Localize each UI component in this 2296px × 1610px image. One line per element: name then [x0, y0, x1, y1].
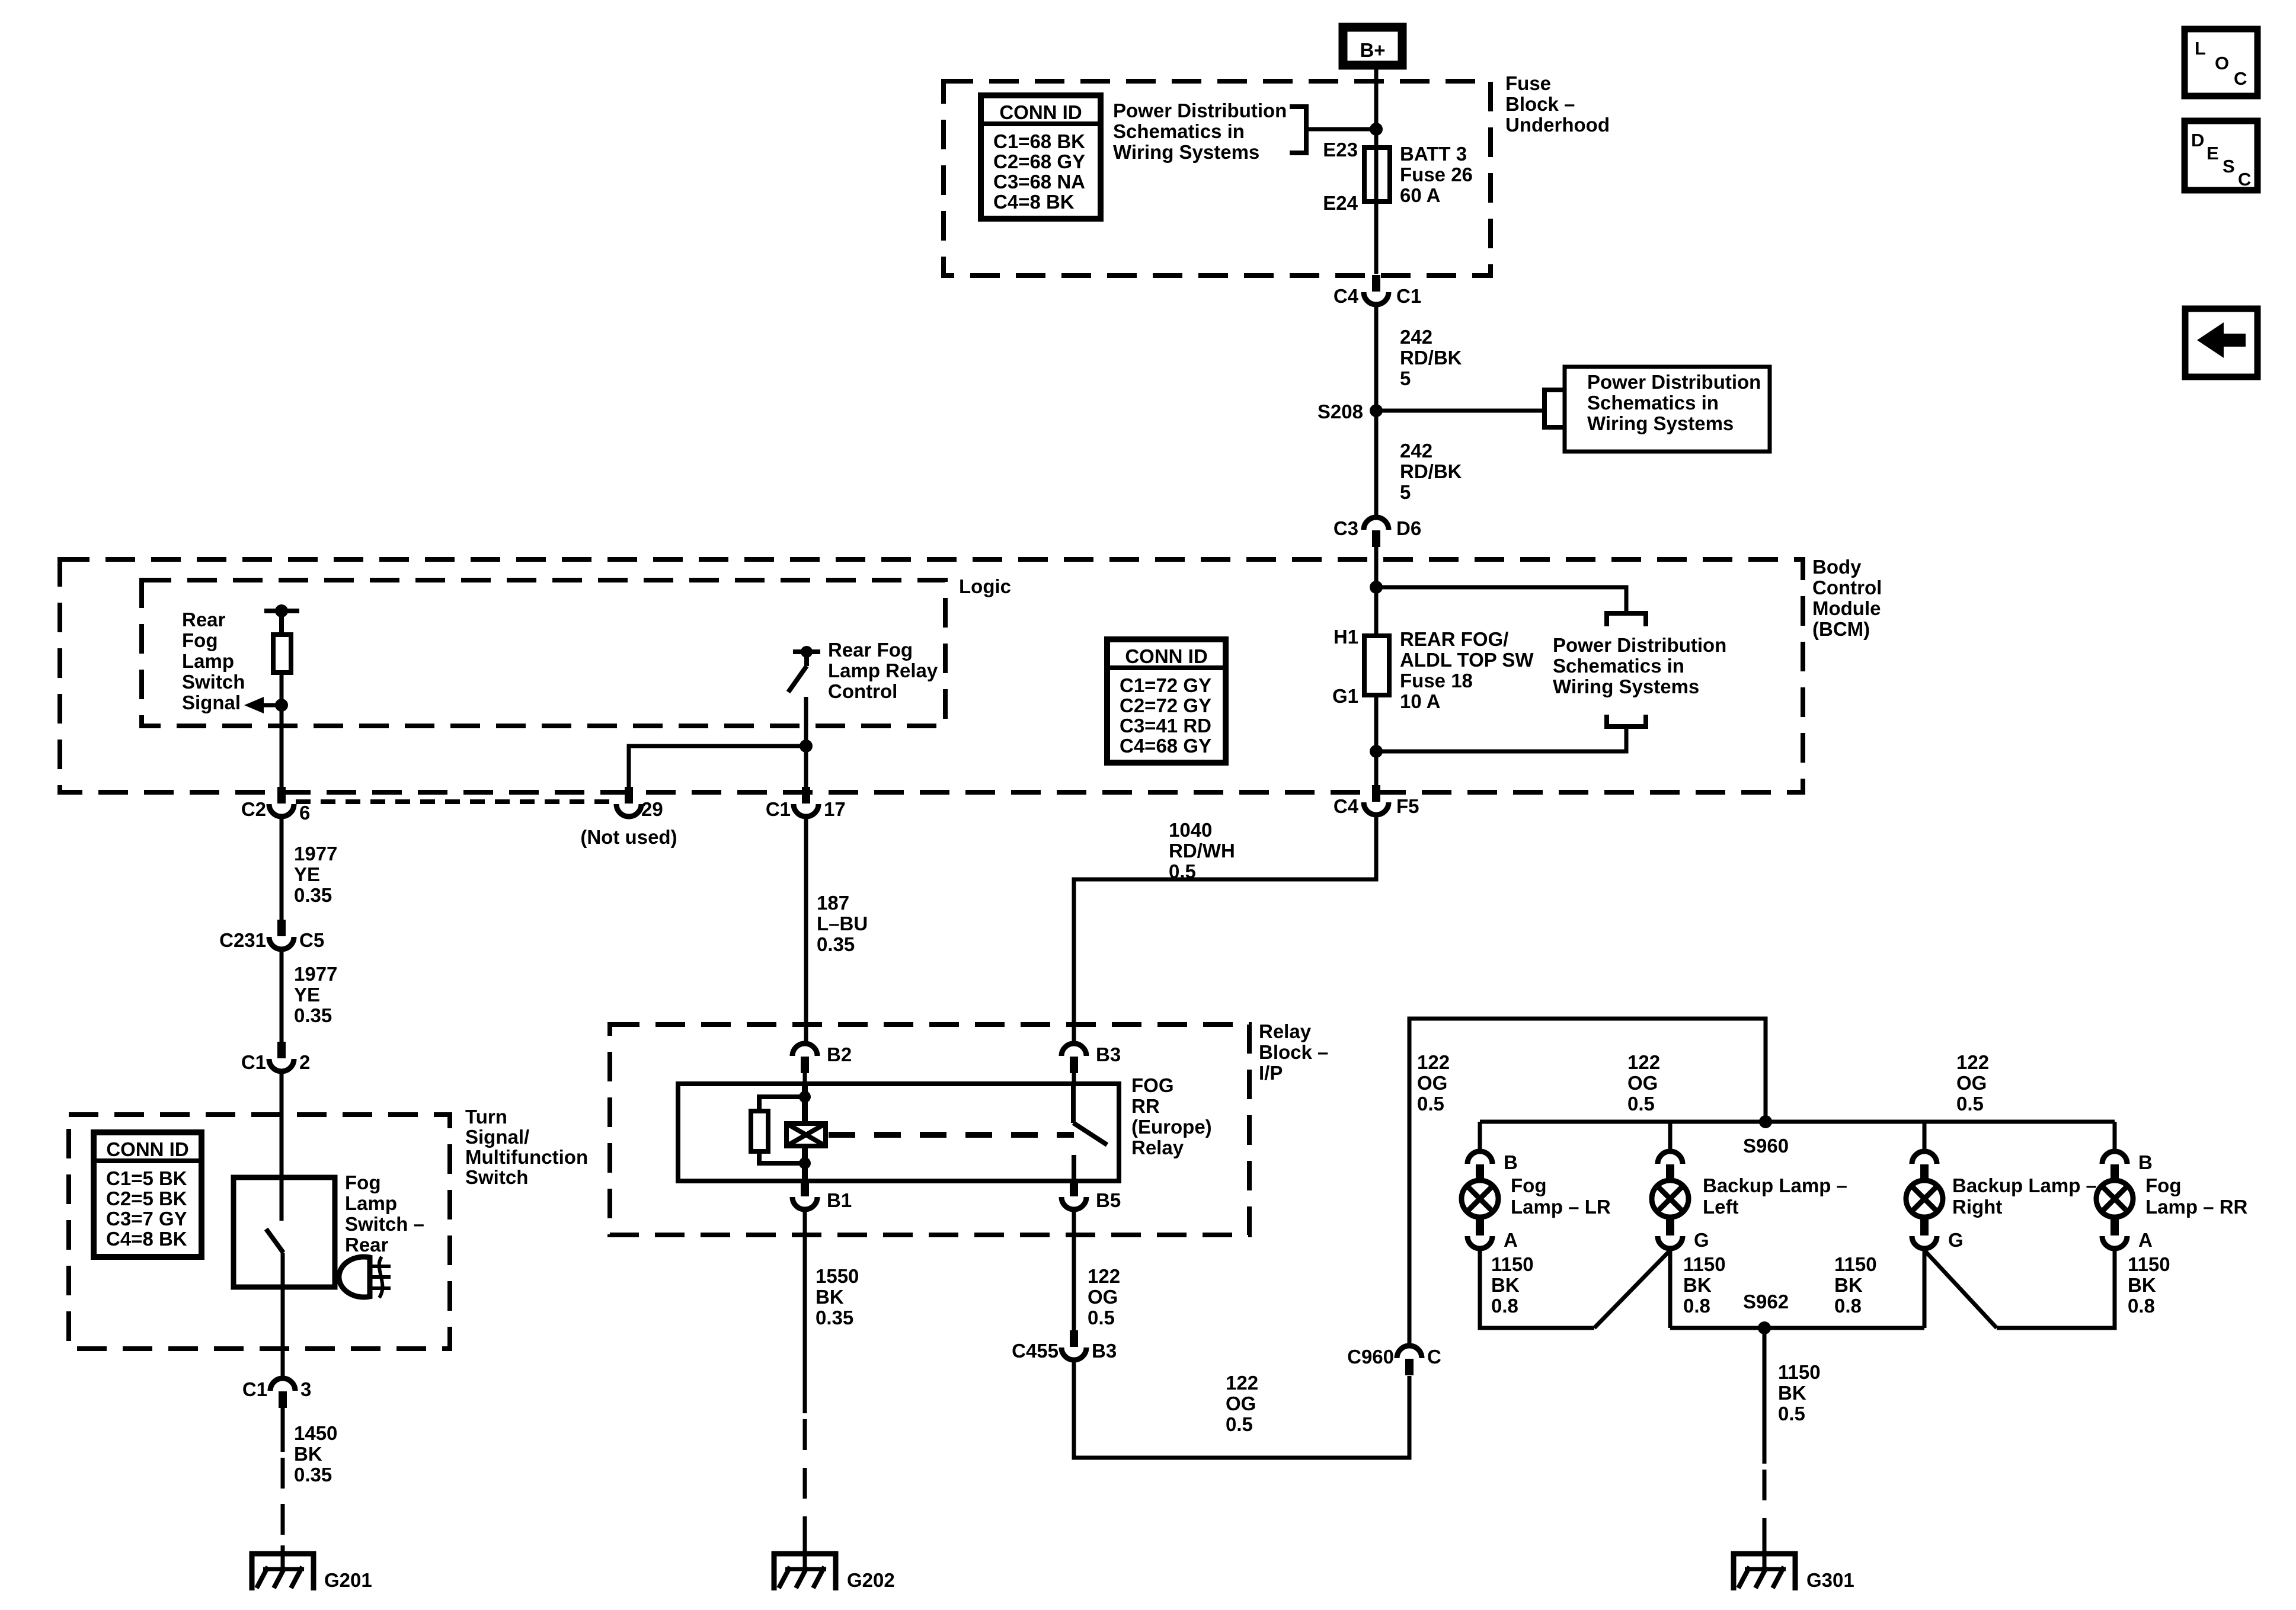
svg-text:G301: G301 — [1806, 1569, 1854, 1591]
svg-text:REAR FOG/: REAR FOG/ — [1400, 628, 1508, 650]
svg-text:(Not used): (Not used) — [580, 826, 677, 848]
wire 122 OG 0.5 (B5 to C455) — [1072, 1211, 1076, 1331]
svg-text:B2: B2 — [827, 1044, 852, 1065]
fuse REAR FOG/ALDL TOP SW Fuse 18 10A — [1364, 636, 1389, 695]
svg-text:10 A: 10 A — [1400, 690, 1440, 712]
svg-text:5: 5 — [1400, 481, 1411, 503]
svg-text:OG: OG — [1627, 1072, 1658, 1094]
svg-text:G201: G201 — [324, 1569, 372, 1591]
svg-text:(BCM): (BCM) — [1812, 618, 1870, 640]
svg-text:Schematics in: Schematics in — [1113, 120, 1245, 142]
splice S960 — [1480, 1120, 2115, 1124]
svg-text:C3=68 NA: C3=68 NA — [993, 171, 1085, 193]
svg-text:C: C — [2238, 169, 2251, 190]
svg-text:Relay: Relay — [1131, 1137, 1184, 1158]
svg-text:122: 122 — [1417, 1051, 1450, 1073]
svg-text:1977: 1977 — [294, 843, 337, 865]
wire 1150 BK 0.8 (backup right) — [1923, 1250, 1927, 1328]
svg-text:Body: Body — [1812, 556, 1862, 578]
connector C960/C — [1405, 1359, 1414, 1375]
svg-text:Fog: Fog — [182, 629, 218, 651]
svg-text:G: G — [1948, 1229, 1964, 1251]
svg-text:(Europe): (Europe) — [1131, 1116, 1212, 1138]
svg-text:Relay: Relay — [1259, 1020, 1312, 1042]
svg-text:Block –: Block – — [1259, 1041, 1328, 1063]
svg-text:Rear: Rear — [182, 609, 226, 630]
svg-text:S962: S962 — [1743, 1291, 1789, 1313]
svg-text:Underhood: Underhood — [1505, 114, 1610, 136]
svg-text:Fog: Fog — [1511, 1174, 1546, 1196]
wire 122 OG 0.5 (C960 up and across) — [1409, 1019, 1766, 1344]
svg-text:0.5: 0.5 — [1778, 1403, 1805, 1425]
svg-text:C1: C1 — [766, 798, 791, 820]
svg-text:C3=7 GY: C3=7 GY — [106, 1208, 187, 1230]
svg-text:C4=68 GY: C4=68 GY — [1120, 735, 1211, 757]
not-used link — [296, 799, 614, 804]
svg-text:60 A: 60 A — [1400, 184, 1440, 206]
connector C455/B3 — [1070, 1330, 1078, 1347]
svg-text:0.5: 0.5 — [1226, 1413, 1253, 1435]
CONN ID table (switch) — [94, 1132, 202, 1257]
svg-text:BK: BK — [1683, 1274, 1712, 1296]
svg-text:0.35: 0.35 — [816, 1307, 853, 1329]
junction to power dist ref (top) — [1370, 581, 1383, 594]
svg-text:1150: 1150 — [1834, 1253, 1877, 1275]
svg-text:Power Distribution: Power Distribution — [1587, 371, 1761, 393]
svg-text:Control: Control — [828, 680, 897, 702]
fog lamp LR — [1478, 1122, 1482, 1150]
svg-text:C5: C5 — [299, 929, 324, 951]
svg-text:A: A — [1504, 1229, 1518, 1251]
svg-text:FOG: FOG — [1131, 1074, 1174, 1096]
svg-text:B+: B+ — [1360, 39, 1385, 61]
fuse BATT 3 Fuse 26 60 A — [1364, 148, 1390, 201]
svg-text:E: E — [2207, 143, 2219, 164]
wire 1150 BK 0.8 (fog RR) — [1997, 1250, 2115, 1328]
svg-text:BK: BK — [2128, 1274, 2156, 1296]
wire 1977 YE 0.35 (2) — [280, 951, 284, 1042]
svg-text:C2=72 GY: C2=72 GY — [1120, 694, 1211, 716]
svg-text:S960: S960 — [1743, 1135, 1789, 1157]
svg-text:Rear Fog: Rear Fog — [828, 639, 913, 661]
connector B2 — [801, 1057, 809, 1073]
connector C4/C1 — [1372, 275, 1380, 292]
svg-text:Power Distribution: Power Distribution — [1113, 100, 1287, 121]
svg-text:CONN ID: CONN ID — [999, 101, 1082, 123]
svg-text:C1=68 BK: C1=68 BK — [993, 130, 1085, 152]
svg-text:Right: Right — [1952, 1196, 2002, 1218]
svg-text:YE: YE — [294, 863, 320, 885]
svg-text:B: B — [2138, 1151, 2153, 1173]
svg-text:E23: E23 — [1323, 139, 1358, 161]
svg-text:Fuse 18: Fuse 18 — [1400, 670, 1473, 692]
svg-text:Rear: Rear — [345, 1234, 389, 1256]
svg-text:0.8: 0.8 — [2128, 1295, 2155, 1317]
svg-text:Backup Lamp –: Backup Lamp – — [1703, 1174, 1847, 1196]
ground G202 — [772, 1551, 838, 1557]
connector 29 (not used) — [625, 787, 633, 804]
svg-text:2: 2 — [299, 1051, 310, 1073]
svg-text:B5: B5 — [1096, 1189, 1121, 1211]
svg-text:Power Distribution: Power Distribution — [1553, 634, 1726, 656]
fog lamp switch - rear box — [234, 1177, 335, 1287]
svg-text:1150: 1150 — [1778, 1361, 1821, 1383]
wire 1150 BK 0.8 (backup left) — [1668, 1250, 1673, 1328]
svg-text:0.35: 0.35 — [817, 933, 855, 955]
connector C1/17 — [802, 787, 810, 804]
svg-text:S: S — [2223, 156, 2235, 177]
svg-text:C2=5 BK: C2=5 BK — [106, 1188, 187, 1209]
svg-text:1040: 1040 — [1169, 819, 1212, 841]
svg-text:Block –: Block – — [1505, 93, 1575, 115]
svg-text:0.35: 0.35 — [294, 1464, 332, 1486]
svg-text:C: C — [2234, 68, 2247, 89]
svg-text:242: 242 — [1400, 440, 1432, 462]
svg-text:L: L — [2195, 38, 2206, 59]
battery feed B+ — [1343, 27, 1402, 65]
connector B5 — [1070, 1180, 1078, 1196]
wire 122 OG 0.5 (C455 to C960) — [1074, 1362, 1409, 1458]
svg-text:BK: BK — [1834, 1274, 1863, 1296]
backup lamp left — [1668, 1122, 1673, 1150]
svg-text:Fog: Fog — [345, 1172, 380, 1193]
svg-text:1550: 1550 — [816, 1265, 859, 1287]
svg-text:0.5: 0.5 — [1088, 1307, 1115, 1329]
svg-text:C1: C1 — [1396, 285, 1421, 307]
svg-text:122: 122 — [1088, 1265, 1120, 1287]
rear fog lamp switch signal (resistor + arrow) — [264, 609, 299, 613]
svg-text:H1: H1 — [1334, 626, 1358, 648]
svg-text:242: 242 — [1400, 326, 1432, 348]
DESC legend box — [2185, 121, 2257, 190]
svg-text:0.5: 0.5 — [1169, 860, 1196, 882]
junction to power dist ref (bottom) — [1370, 745, 1383, 758]
Logic dashed box — [142, 580, 945, 726]
connector C4/F5 — [1372, 785, 1380, 802]
svg-text:C1=5 BK: C1=5 BK — [106, 1167, 187, 1189]
wire B+ to fuse block — [1374, 69, 1379, 149]
svg-text:Fog: Fog — [2145, 1174, 2181, 1196]
svg-text:C455: C455 — [1012, 1340, 1059, 1362]
svg-text:Wiring Systems: Wiring Systems — [1553, 676, 1699, 697]
svg-text:6: 6 — [299, 802, 310, 824]
svg-text:B3: B3 — [1092, 1340, 1117, 1362]
svg-text:Wiring Systems: Wiring Systems — [1113, 141, 1259, 163]
svg-text:RD/BK: RD/BK — [1400, 347, 1462, 369]
wire 1150 BK 0.5 to G301 — [1763, 1328, 1767, 1464]
svg-text:A: A — [2138, 1229, 2153, 1251]
svg-text:C4: C4 — [1334, 285, 1359, 307]
relay actuation dashed link — [829, 1132, 1074, 1138]
svg-text:C1=72 GY: C1=72 GY — [1120, 674, 1211, 696]
svg-text:RD/WH: RD/WH — [1169, 840, 1235, 862]
svg-text:122: 122 — [1226, 1372, 1258, 1394]
svg-text:B3: B3 — [1096, 1044, 1121, 1065]
svg-text:Signal/: Signal/ — [465, 1126, 529, 1148]
svg-text:122: 122 — [1956, 1051, 1989, 1073]
splice S962 — [1670, 1326, 1924, 1330]
svg-text:Fuse: Fuse — [1505, 72, 1551, 94]
svg-text:ALDL TOP SW: ALDL TOP SW — [1400, 649, 1534, 671]
svg-text:Turn: Turn — [465, 1106, 507, 1128]
svg-text:C: C — [1427, 1346, 1441, 1368]
svg-text:C4: C4 — [1334, 795, 1359, 817]
svg-text:0.5: 0.5 — [1627, 1093, 1655, 1115]
svg-text:C2=68 GY: C2=68 GY — [993, 151, 1085, 172]
branch to pin 29 — [800, 740, 813, 753]
Turn Signal/Multifunction Switch dashed box — [69, 1115, 450, 1349]
svg-text:G202: G202 — [847, 1569, 895, 1591]
svg-text:Backup Lamp –: Backup Lamp – — [1952, 1174, 2097, 1196]
svg-text:BK: BK — [816, 1286, 844, 1308]
svg-text:1977: 1977 — [294, 963, 337, 985]
svg-text:OG: OG — [1956, 1072, 1987, 1094]
wire 1150 BK 0.8 (fog LR) — [1480, 1250, 1594, 1328]
svg-text:Fuse 26: Fuse 26 — [1400, 164, 1473, 185]
wire to power distribution ref — [1376, 409, 1544, 413]
wire 1040 RD/WH 0.5 — [1074, 817, 1376, 1042]
svg-text:B1: B1 — [827, 1189, 852, 1211]
svg-text:E24: E24 — [1323, 192, 1358, 214]
svg-text:C960: C960 — [1347, 1346, 1394, 1368]
svg-text:0.5: 0.5 — [1417, 1093, 1444, 1115]
svg-text:5: 5 — [1400, 367, 1411, 389]
connector C231/C5 — [277, 920, 286, 936]
wire to B+ node — [1306, 127, 1376, 132]
svg-text:I/P: I/P — [1259, 1062, 1283, 1084]
svg-text:B: B — [1504, 1151, 1518, 1173]
svg-text:G1: G1 — [1332, 685, 1358, 707]
svg-text:RD/BK: RD/BK — [1400, 460, 1462, 482]
svg-text:Module: Module — [1812, 597, 1881, 619]
svg-text:Wiring Systems: Wiring Systems — [1587, 412, 1734, 434]
svg-text:1150: 1150 — [1683, 1253, 1726, 1275]
svg-text:Lamp: Lamp — [345, 1192, 397, 1214]
backup lamp right — [1923, 1122, 1927, 1150]
svg-text:Multifunction: Multifunction — [465, 1146, 588, 1168]
svg-text:Lamp: Lamp — [182, 650, 234, 672]
svg-text:O: O — [2215, 53, 2229, 73]
svg-text:C231: C231 — [219, 929, 266, 951]
wire 187 L-BU 0.35 — [804, 818, 808, 1042]
Fuse Block - Underhood dashed box — [944, 81, 1491, 276]
svg-text:Logic: Logic — [959, 575, 1011, 597]
Relay Block - I/P dashed box — [610, 1025, 1249, 1235]
svg-text:3: 3 — [300, 1378, 311, 1400]
svg-text:0.8: 0.8 — [1491, 1295, 1518, 1317]
svg-text:Schematics in: Schematics in — [1587, 392, 1719, 414]
svg-text:Lamp – LR: Lamp – LR — [1511, 1196, 1611, 1218]
connector B3 (relay) — [1070, 1057, 1078, 1073]
svg-text:C2: C2 — [241, 798, 266, 820]
svg-text:Left: Left — [1703, 1196, 1739, 1218]
svg-text:Switch: Switch — [182, 671, 245, 693]
svg-text:0.8: 0.8 — [1834, 1295, 1862, 1317]
ground G201 — [250, 1551, 316, 1557]
connector B1 — [801, 1180, 809, 1196]
svg-text:Control: Control — [1812, 577, 1882, 598]
svg-text:29: 29 — [641, 798, 663, 820]
svg-text:Switch –: Switch – — [345, 1213, 424, 1235]
svg-text:RR: RR — [1131, 1095, 1160, 1117]
svg-text:1450: 1450 — [294, 1422, 337, 1444]
svg-text:1150: 1150 — [1491, 1253, 1534, 1275]
svg-text:Signal: Signal — [182, 692, 241, 713]
svg-text:G: G — [1694, 1229, 1709, 1251]
svg-text:Lamp – RR: Lamp – RR — [2145, 1196, 2248, 1218]
svg-text:BK: BK — [294, 1443, 322, 1465]
svg-text:BK: BK — [1778, 1382, 1806, 1404]
svg-text:Lamp Relay: Lamp Relay — [828, 660, 938, 681]
fog lamp RR — [2113, 1122, 2117, 1150]
svg-text:OG: OG — [1088, 1286, 1118, 1308]
svg-text:D: D — [2191, 130, 2204, 151]
rear fog lamp relay control (switch) — [793, 649, 820, 654]
splice S208 — [1370, 404, 1383, 417]
svg-text:C1: C1 — [242, 1378, 267, 1400]
svg-text:OG: OG — [1226, 1393, 1256, 1414]
svg-text:L–BU: L–BU — [817, 913, 868, 934]
connector C1/2 — [277, 1042, 286, 1058]
back-arrow icon box — [2185, 309, 2257, 377]
svg-text:Schematics in: Schematics in — [1553, 655, 1684, 677]
svg-text:D6: D6 — [1396, 517, 1421, 539]
svg-text:YE: YE — [294, 984, 320, 1006]
svg-text:1150: 1150 — [2128, 1253, 2170, 1275]
wire 1550 BK 0.35 — [803, 1211, 807, 1413]
relay coil with parallel resistor — [802, 1084, 808, 1124]
CONN ID table (fuse block) — [981, 95, 1101, 219]
connector C3/D6 — [1372, 530, 1380, 547]
svg-text:CONN ID: CONN ID — [106, 1138, 188, 1160]
svg-text:C3: C3 — [1334, 517, 1358, 539]
svg-text:0.5: 0.5 — [1956, 1093, 1984, 1115]
svg-text:0.8: 0.8 — [1683, 1295, 1710, 1317]
svg-text:CONN ID: CONN ID — [1125, 645, 1207, 667]
svg-text:0.35: 0.35 — [294, 884, 332, 906]
fog lamp indicator icon — [339, 1257, 370, 1297]
wire 242 RD/BK 5 upper — [1374, 306, 1379, 411]
Body Control Module (BCM) dashed box — [60, 559, 1803, 792]
svg-text:F5: F5 — [1396, 795, 1419, 817]
svg-text:OG: OG — [1417, 1072, 1447, 1094]
svg-text:S208: S208 — [1318, 401, 1363, 422]
svg-text:C3=41 RD: C3=41 RD — [1120, 715, 1211, 737]
connector C1/3 — [279, 1391, 287, 1408]
svg-text:BK: BK — [1491, 1274, 1520, 1296]
relay switch — [1071, 1084, 1076, 1123]
svg-text:Switch: Switch — [465, 1166, 528, 1188]
svg-text:BATT 3: BATT 3 — [1400, 143, 1467, 165]
Power Distribution reference box — [1565, 367, 1770, 452]
wire 1977 YE 0.35 — [280, 818, 284, 920]
svg-text:C1: C1 — [241, 1051, 266, 1073]
CONN ID table (BCM) — [1107, 639, 1226, 763]
ground G301 — [1731, 1551, 1798, 1557]
svg-text:0.35: 0.35 — [294, 1004, 332, 1026]
connector C2/6 — [277, 787, 286, 804]
svg-text:122: 122 — [1627, 1051, 1660, 1073]
wire 242 RD/BK 5 lower — [1374, 411, 1379, 516]
svg-text:C4=8 BK: C4=8 BK — [106, 1228, 187, 1250]
svg-text:17: 17 — [824, 798, 846, 820]
svg-text:C4=8 BK: C4=8 BK — [993, 191, 1075, 213]
svg-text:187: 187 — [817, 892, 849, 914]
FOG RR (Europe) Relay box — [678, 1084, 1119, 1181]
wire 1450 BK 0.35 — [281, 1405, 285, 1452]
LOC legend box — [2185, 29, 2257, 96]
